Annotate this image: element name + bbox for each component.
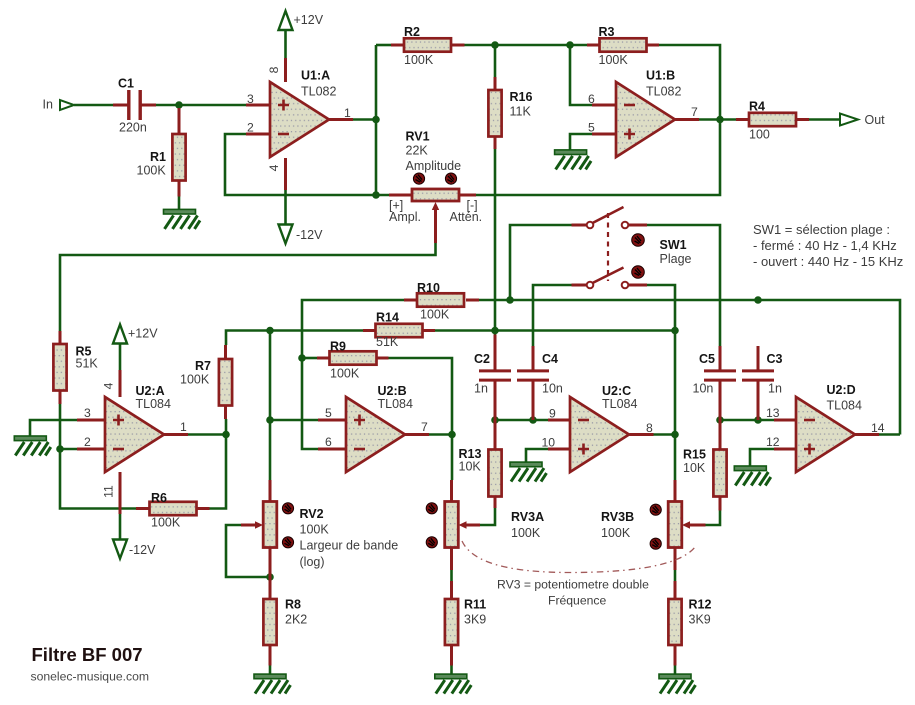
resistor R8 labels bbox=[285, 598, 307, 627]
svg-text:R8: R8 bbox=[285, 598, 301, 612]
title Filtre BF 007 bbox=[32, 644, 143, 665]
wire RV2 wiper loop bbox=[226, 525, 270, 577]
svg-text:100K: 100K bbox=[330, 367, 360, 381]
svg-text:R12: R12 bbox=[689, 598, 712, 612]
svg-text:sonelec-musique.com: sonelec-musique.com bbox=[31, 670, 150, 684]
U1:B pin 5 stub bbox=[592, 133, 616, 136]
RV3A labels bbox=[511, 510, 544, 540]
svg-text:100K: 100K bbox=[511, 526, 541, 540]
svg-text:TL084: TL084 bbox=[602, 397, 637, 411]
svg-text:C3: C3 bbox=[767, 352, 783, 366]
R3 left lead bbox=[587, 44, 600, 47]
wire R5 bottom to R6 line bbox=[60, 404, 136, 509]
svg-text:100K: 100K bbox=[180, 373, 210, 387]
RV3A bottom lead bbox=[450, 548, 453, 571]
U2:C pin 9 stub bbox=[548, 419, 570, 422]
op-amp U2:C labels bbox=[602, 384, 637, 411]
R13 top lead bbox=[494, 420, 497, 450]
U1:A pin 3 stub bbox=[246, 104, 270, 107]
R12 top lead bbox=[674, 581, 677, 599]
capacitor C4 bbox=[517, 371, 549, 380]
node C3 top junction bbox=[754, 296, 762, 304]
svg-text:R11: R11 bbox=[464, 598, 486, 612]
RV2 indicator top bbox=[282, 503, 293, 514]
svg-text:1: 1 bbox=[344, 106, 351, 120]
node U2:B pin5 junction bbox=[266, 416, 274, 424]
wire U2:A pin 3 to ground bbox=[30, 420, 77, 436]
resistor R12 bbox=[668, 599, 681, 645]
ground R8 bbox=[254, 674, 291, 694]
svg-text:SW1 = sélection plage :: SW1 = sélection plage : bbox=[753, 222, 890, 237]
SW1 indicator bottom bbox=[632, 266, 645, 279]
capacitor C5 bbox=[704, 371, 736, 380]
U2:D pin numbers bbox=[766, 406, 885, 449]
resistor R1 bbox=[172, 134, 185, 181]
svg-text:C1: C1 bbox=[118, 77, 134, 91]
wire +12V to U1:A pin 8 bbox=[284, 29, 287, 58]
RV3A wiper lead bbox=[466, 524, 480, 527]
node U2:C output junction bbox=[671, 431, 679, 439]
wire R3 to R4 junction via right corner bbox=[476, 45, 720, 195]
R7 bottom lead bbox=[224, 406, 227, 420]
svg-text:U1:B: U1:B bbox=[646, 69, 675, 83]
wire U1:A pin 4 to -12V bbox=[284, 190, 287, 225]
R14 left lead bbox=[363, 329, 376, 332]
svg-text:TL084: TL084 bbox=[136, 397, 171, 411]
svg-text:Fréquence: Fréquence bbox=[548, 594, 606, 608]
R2 leads bbox=[391, 44, 404, 47]
R15 top lead bbox=[719, 420, 722, 450]
node SW1 top junction bbox=[506, 296, 514, 304]
R6 left lead bbox=[136, 507, 150, 510]
resistor R8 bbox=[263, 599, 276, 645]
svg-text:1n: 1n bbox=[768, 382, 782, 396]
capacitor C1 bbox=[129, 90, 140, 120]
node input junction bbox=[175, 101, 183, 109]
wire U2:D pin 12 to ground bbox=[750, 449, 774, 466]
wire R1 to ground bbox=[178, 197, 181, 210]
wire R8 to ground bbox=[269, 666, 272, 675]
wire R9 right to RV3A branch bbox=[389, 358, 453, 480]
resistor R5 labels bbox=[76, 345, 99, 371]
wire RV1 wiper to R5 bbox=[60, 243, 436, 331]
ground R12 bbox=[659, 674, 696, 694]
wire R12 to ground bbox=[674, 666, 677, 675]
R16 top lead bbox=[494, 77, 497, 90]
svg-text:Amplitude: Amplitude bbox=[406, 159, 462, 173]
wire U2:A pin 11 to -12V bbox=[119, 514, 122, 540]
svg-text:5: 5 bbox=[325, 406, 332, 420]
wire RV3A to R11 bbox=[450, 570, 453, 581]
RV3 gang dashed arc bbox=[462, 541, 695, 573]
ground U2:C pin 10 bbox=[510, 462, 547, 482]
capacitor C3 labels bbox=[767, 352, 783, 396]
RV2 labels bbox=[300, 507, 399, 569]
SW1 contact A1 bbox=[587, 222, 594, 229]
wire R16 top bbox=[494, 45, 497, 77]
svg-text:R7: R7 bbox=[195, 359, 211, 373]
U2:A pin 4 stub bbox=[119, 370, 122, 397]
RV2 bottom lead bbox=[269, 548, 272, 578]
power -12V U2:A bbox=[113, 540, 156, 559]
svg-text:14: 14 bbox=[871, 421, 885, 435]
wire RV3B to R12 bbox=[674, 570, 677, 581]
wire to R2 bbox=[376, 44, 391, 47]
node R14 line junction bbox=[266, 327, 274, 335]
op-amp U2:A labels bbox=[136, 384, 171, 411]
op-amp U2:D labels bbox=[827, 383, 862, 413]
C4 bottom lead bbox=[532, 381, 535, 420]
capacitor C2 bbox=[479, 371, 511, 380]
svg-text:U2:D: U2:D bbox=[827, 383, 856, 397]
svg-text:4: 4 bbox=[267, 164, 281, 171]
RV3B labels bbox=[601, 510, 634, 540]
wire U2:A output bbox=[188, 433, 226, 436]
resistor R4 labels bbox=[749, 100, 770, 142]
R5 top lead bbox=[59, 331, 62, 344]
C2 top lead bbox=[494, 335, 497, 371]
R2 right lead bbox=[452, 44, 465, 47]
U2:C pin numbers bbox=[542, 407, 654, 450]
wire R2 to R3 top rail bbox=[465, 44, 588, 47]
op-amp U2:B labels bbox=[378, 384, 413, 411]
svg-text:10K: 10K bbox=[459, 460, 482, 474]
U1:A pin numbers bbox=[247, 66, 351, 171]
R4 left lead bbox=[736, 118, 749, 121]
wire R4 to Out terminal bbox=[809, 118, 840, 121]
svg-text:Largeur de bande: Largeur de bande bbox=[300, 539, 399, 553]
svg-text:R3: R3 bbox=[599, 25, 615, 39]
RV3B indicator top bbox=[650, 504, 661, 515]
wire U2:C pin 10 to ground bbox=[526, 449, 548, 462]
svg-text:R1: R1 bbox=[150, 150, 166, 164]
RV3A top lead bbox=[450, 480, 453, 502]
ground U2:A pin 3 bbox=[14, 436, 51, 456]
node C3 bottom junction bbox=[754, 416, 762, 424]
svg-text:C5: C5 bbox=[699, 352, 715, 366]
resistor R11 bbox=[445, 599, 458, 645]
power +12V U1:A bbox=[279, 11, 324, 30]
wire vertical x376 output to R2 and feedback bbox=[375, 45, 378, 195]
U2:A pin 2 stub bbox=[77, 448, 105, 451]
potentiometer RV3A bbox=[445, 502, 459, 548]
resistor R16 labels bbox=[510, 90, 533, 119]
svg-text:Filtre BF 007: Filtre BF 007 bbox=[32, 644, 143, 665]
svg-text:4: 4 bbox=[102, 382, 116, 389]
op-amp U2:B bbox=[346, 397, 405, 472]
wire U1:A output bbox=[353, 118, 376, 121]
U2:B pin numbers bbox=[325, 406, 428, 449]
svg-text:3K9: 3K9 bbox=[689, 613, 711, 627]
wire U1:A pin 2 feedback loop bbox=[225, 134, 389, 195]
R13 bottom lead bbox=[494, 497, 497, 509]
op-amp U2:A bbox=[105, 397, 164, 472]
R10 right lead bbox=[466, 299, 479, 302]
svg-text:100K: 100K bbox=[601, 526, 631, 540]
RV3B indicator bottom bbox=[650, 538, 661, 549]
SW1 top left stub bbox=[572, 224, 587, 227]
capacitor C4 labels bbox=[542, 352, 563, 396]
SW1 indicator top bbox=[632, 234, 645, 247]
RV1 right lead bbox=[459, 194, 476, 197]
RV3B bottom lead bbox=[674, 548, 677, 571]
svg-text:8: 8 bbox=[646, 421, 653, 435]
op-amp U1:B bbox=[616, 82, 675, 157]
svg-text:- fermé : 40 Hz - 1,4 KHz: - fermé : 40 Hz - 1,4 KHz bbox=[753, 238, 897, 253]
C2 bottom lead bbox=[494, 381, 497, 420]
svg-text:+12V: +12V bbox=[128, 327, 158, 341]
wire SW1 bottom pole right down to U2:C output node bbox=[647, 285, 675, 480]
svg-text:C4: C4 bbox=[542, 352, 558, 366]
C1 left lead bbox=[113, 104, 128, 107]
svg-text:(log): (log) bbox=[300, 555, 325, 569]
svg-text:5: 5 bbox=[588, 121, 595, 135]
node C2 bottom junction bbox=[491, 416, 499, 424]
svg-text:U1:A: U1:A bbox=[301, 69, 330, 83]
node C5 bottom junction bbox=[716, 416, 724, 424]
subtitle sonelec-musique.com bbox=[31, 670, 150, 684]
capacitor C2 labels bbox=[474, 352, 490, 396]
potentiometer RV3B bbox=[668, 502, 682, 548]
svg-text:3: 3 bbox=[84, 406, 91, 420]
switch SW1 pole B bbox=[593, 268, 624, 284]
svg-text:51K: 51K bbox=[76, 357, 99, 371]
wire U2:B pin 5 node down to RV2 bbox=[269, 331, 272, 481]
wire +12V to U2:A pin 4 bbox=[119, 342, 122, 370]
svg-text:RV3A: RV3A bbox=[511, 510, 544, 524]
svg-text:3: 3 bbox=[247, 92, 254, 106]
svg-text:2: 2 bbox=[84, 435, 91, 449]
RV2 wiper arrow bbox=[255, 521, 263, 528]
wire SW1 bottom pole left down to C4 bbox=[533, 285, 572, 346]
SW1 gang dashed link bbox=[607, 213, 609, 281]
U2:A pin numbers bbox=[84, 382, 187, 497]
RV2 indicator bottom bbox=[282, 537, 293, 548]
U1:A pin 4 stub bbox=[284, 158, 287, 190]
capacitor C5 labels bbox=[693, 352, 716, 396]
op-amp U1:B labels bbox=[646, 69, 681, 99]
svg-text:220n: 220n bbox=[119, 121, 147, 135]
U2:A output stub bbox=[164, 433, 188, 436]
R8 bottom lead bbox=[269, 645, 272, 666]
resistor R11 labels bbox=[464, 598, 486, 627]
svg-text:13: 13 bbox=[766, 406, 780, 420]
U2:A pin 3 stub bbox=[77, 419, 105, 422]
resistor R2 labels bbox=[404, 25, 434, 67]
C3 bottom lead bbox=[757, 381, 760, 420]
capacitor C1 labels bbox=[118, 77, 147, 135]
RV1 wiper lead bbox=[434, 208, 437, 243]
svg-text:R16: R16 bbox=[510, 90, 533, 104]
resistor R13 labels bbox=[459, 447, 482, 474]
svg-text:7: 7 bbox=[421, 420, 428, 434]
RV2 top lead bbox=[269, 480, 272, 502]
U2:C pin 10 stub bbox=[548, 448, 570, 451]
svg-text:-12V: -12V bbox=[296, 228, 323, 242]
capacitor C3 bbox=[742, 371, 774, 380]
R11 bottom lead bbox=[450, 645, 453, 666]
wire U2:B output bbox=[429, 433, 452, 436]
svg-text:100K: 100K bbox=[599, 53, 629, 67]
resistor R13 bbox=[488, 450, 501, 497]
SW1 contact A2 bbox=[622, 222, 629, 229]
svg-text:TL084: TL084 bbox=[827, 399, 862, 413]
wire U1:B output to R4 bbox=[699, 118, 736, 121]
svg-text:Plage: Plage bbox=[660, 252, 692, 266]
RV1 labels bbox=[389, 130, 482, 225]
ground U1:B pin 5 bbox=[555, 150, 592, 170]
op-amp U1:A bbox=[270, 82, 329, 157]
node RV2 wiper junction bbox=[266, 573, 274, 581]
resistor R15 bbox=[713, 450, 726, 497]
resistor R12 labels bbox=[689, 598, 712, 627]
R8 top lead bbox=[269, 548, 272, 600]
SW1 contact B2 bbox=[622, 282, 629, 289]
svg-text:R10: R10 bbox=[417, 281, 440, 295]
node U2:A pin2 junction bbox=[56, 445, 64, 453]
node R9 left junction bbox=[298, 354, 306, 362]
svg-text:7: 7 bbox=[691, 105, 698, 119]
wire R9 left bbox=[302, 357, 317, 360]
SW1 bottom right stub bbox=[629, 284, 647, 287]
svg-text:RV3B: RV3B bbox=[601, 510, 634, 524]
svg-text:C2: C2 bbox=[474, 352, 490, 366]
op-amp U2:C bbox=[570, 397, 629, 472]
R11 top lead bbox=[450, 581, 453, 599]
resistor R6 labels bbox=[151, 491, 181, 530]
resistor R6 bbox=[150, 502, 197, 515]
ground R11 bbox=[435, 674, 472, 694]
wire R7 top to R14 line bbox=[226, 331, 363, 346]
C5 top lead bbox=[719, 346, 722, 370]
R6 right lead bbox=[197, 507, 210, 510]
U2:D pin 13 stub bbox=[774, 419, 796, 422]
annotation RV3 double potentiometer bbox=[497, 578, 649, 608]
svg-text:R6: R6 bbox=[151, 491, 167, 505]
potentiometer RV1 bbox=[412, 189, 459, 210]
op-amp U2:D bbox=[796, 397, 855, 472]
resistor R14 labels bbox=[376, 311, 399, 349]
op-amp U1:A labels bbox=[301, 69, 336, 99]
R1 top lead bbox=[178, 108, 181, 134]
wire U2:D output bbox=[879, 433, 900, 436]
svg-text:11: 11 bbox=[102, 485, 116, 498]
node SW1 bottom junction bbox=[671, 327, 679, 335]
SW1 top right stub bbox=[629, 224, 647, 227]
node C4 bottom junction bbox=[529, 416, 537, 424]
terminal In bbox=[60, 100, 74, 110]
terminal Out bbox=[840, 114, 858, 126]
U1:B pin numbers bbox=[588, 92, 698, 135]
wire C1 to U1:A pin 3 bbox=[156, 104, 246, 107]
svg-text:8: 8 bbox=[267, 66, 281, 73]
node R16-C2 junction bbox=[491, 327, 499, 335]
resistor R16 bbox=[488, 90, 501, 137]
power -12V U1:A bbox=[279, 225, 324, 244]
wire R13 to RV3A wiper bbox=[480, 508, 495, 525]
resistor R3 bbox=[600, 38, 647, 51]
wire R10 right to U2:D feedback loop bbox=[479, 300, 900, 435]
svg-text:TL082: TL082 bbox=[646, 85, 681, 99]
svg-text:1n: 1n bbox=[474, 382, 488, 396]
RV3A wiper arrow bbox=[459, 521, 467, 528]
RV3A indicator top bbox=[426, 503, 437, 514]
wire U2:C output bbox=[654, 433, 676, 436]
resistor R3 labels bbox=[599, 25, 629, 67]
wire input In to C1 bbox=[74, 104, 113, 107]
annotation SW1 selection bbox=[753, 222, 903, 269]
resistor R5 bbox=[53, 344, 66, 391]
svg-text:Ampl.: Ampl. bbox=[389, 210, 421, 224]
svg-text:U2:C: U2:C bbox=[602, 384, 631, 398]
RV3B wiper lead bbox=[690, 524, 706, 527]
SW1 labels bbox=[660, 238, 692, 266]
svg-text:+12V: +12V bbox=[294, 13, 324, 27]
C5 bottom lead bbox=[719, 381, 722, 420]
svg-text:22K: 22K bbox=[406, 144, 429, 158]
R9 left lead bbox=[317, 357, 330, 360]
svg-text:U2:B: U2:B bbox=[378, 384, 407, 398]
U2:C output stub bbox=[630, 433, 654, 436]
U2:D pin 12 stub bbox=[774, 448, 796, 451]
svg-text:6: 6 bbox=[325, 435, 332, 449]
ground R1 bbox=[164, 209, 201, 229]
R9 right lead bbox=[376, 357, 389, 360]
resistor R7 bbox=[219, 359, 232, 406]
RV3B top lead bbox=[674, 480, 677, 502]
svg-text:3K9: 3K9 bbox=[464, 613, 486, 627]
wire R15 to RV3B wiper bbox=[706, 511, 721, 526]
resistor R2 bbox=[404, 38, 451, 51]
R1 bottom lead bbox=[178, 181, 181, 197]
node U2:B output junction bbox=[448, 431, 456, 439]
U1:A pin 2 stub bbox=[246, 133, 270, 136]
svg-text:SW1: SW1 bbox=[660, 238, 687, 252]
C4 top lead bbox=[532, 346, 535, 370]
SW1 contact B1 bbox=[587, 282, 594, 289]
wire SW1 top pole left to R10 line bbox=[510, 225, 572, 300]
U1:A pin 8 stub bbox=[284, 58, 287, 82]
svg-text:RV3 = potentiometre double: RV3 = potentiometre double bbox=[497, 578, 649, 592]
node U2:A output junction bbox=[222, 431, 230, 439]
resistor R4 bbox=[749, 113, 796, 126]
svg-text:100K: 100K bbox=[151, 516, 181, 530]
svg-text:R2: R2 bbox=[404, 25, 420, 39]
svg-text:TL082: TL082 bbox=[301, 85, 336, 99]
node feedback junction bbox=[372, 191, 380, 199]
wire R10 line left corner down to U2:B pin 6 bbox=[302, 300, 404, 449]
R12 bottom lead bbox=[674, 645, 677, 666]
svg-text:2K2: 2K2 bbox=[285, 613, 307, 627]
svg-text:9: 9 bbox=[549, 407, 556, 421]
wire U1:B pin 5 to ground bbox=[570, 134, 592, 150]
wire U2:B pin 5 bbox=[270, 419, 318, 422]
svg-text:2: 2 bbox=[247, 121, 254, 135]
node R2-R16 junction bbox=[491, 41, 499, 49]
C1 right lead bbox=[141, 104, 156, 107]
svg-text:U2:A: U2:A bbox=[136, 384, 165, 398]
svg-text:51K: 51K bbox=[376, 335, 399, 349]
RV2 wiper lead bbox=[241, 524, 257, 527]
R4 right lead bbox=[796, 118, 809, 121]
U1:B output stub bbox=[675, 118, 699, 121]
U2:B output stub bbox=[405, 433, 429, 436]
svg-text:100K: 100K bbox=[300, 523, 330, 537]
resistor R9 bbox=[330, 351, 377, 364]
C3 top lead bbox=[757, 346, 760, 370]
U2:B pin 5 stub bbox=[318, 419, 346, 422]
svg-text:10K: 10K bbox=[683, 461, 706, 475]
